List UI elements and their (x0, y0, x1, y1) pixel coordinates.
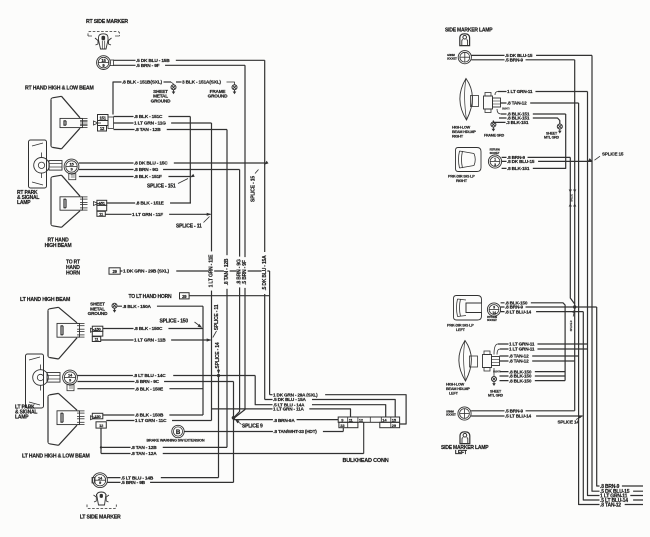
lamp: side marker right icon (460, 34, 470, 46)
lamp: prk-dir sig lp right (456, 148, 482, 172)
svg-text:.8 BRN - 9G: .8 BRN - 9G (134, 167, 159, 173)
wire BRN-9 trunk (597, 307, 643, 486)
wire BRN-9 riser (prk-dir right) (570, 157, 574, 304)
svg-text:LT HAND HIGH BEAM: LT HAND HIGH BEAM (20, 297, 70, 303)
lamp: RT hand high-low beam headlamp (53, 96, 62, 98)
sheet metal ground left (493, 368, 495, 376)
splice 15 callout (right) (588, 158, 593, 163)
wire .8 BLK - 151F (79, 176, 190, 178)
svg-text:SPLICE - 151: SPLICE - 151 (147, 184, 176, 190)
lamp: RT hand high beam headlamp (53, 175, 62, 177)
svg-text:BULKHEAD CONN: BULKHEAD CONN (343, 458, 389, 464)
wire LT GRN-11 vertical (211, 123, 213, 421)
svg-text:SOCKET: SOCKET (487, 318, 497, 322)
svg-text:TO LT HAND HORN: TO LT HAND HORN (129, 294, 173, 300)
svg-text:SOCKET: SOCKET (446, 413, 456, 417)
svg-text:.8 TAN - 12A: .8 TAN - 12A (131, 451, 157, 457)
svg-text:LEFT: LEFT (449, 392, 459, 396)
svg-text:.8 BLK - 150C: .8 BLK - 150C (134, 326, 163, 332)
wire 1 LT GRN - 11G (114, 122, 212, 124)
svg-text:1: 1 (494, 158, 496, 162)
wire TAN-12 vertical (226, 130, 228, 448)
lamp: RT side marker lamp icon (88, 32, 120, 37)
svg-text:9: 9 (493, 306, 495, 310)
wire 1 LT GRN-11 left #1 (494, 344, 498, 355)
svg-text:BEAM HDLMP: BEAM HDLMP (446, 387, 470, 391)
svg-text:HIGH BEAM: HIGH BEAM (45, 243, 72, 249)
wire LT BLU-14 trunk (583, 312, 643, 500)
connector: side marker right socket (458, 51, 471, 64)
svg-text:LEFT: LEFT (455, 450, 467, 456)
connector: LT park socket 14/9 (63, 370, 78, 385)
svg-text:3 BLK - 151A(SXL): 3 BLK - 151A(SXL) (182, 80, 221, 86)
svg-text:HORN: HORN (66, 271, 81, 277)
wire .8 BLK-151 (prk-dir right) (502, 114, 566, 168)
svg-text:.8 LT BLU-14: .8 LT BLU-14 (505, 309, 531, 314)
svg-text:1 LT GRN - 11F: 1 LT GRN - 11F (132, 212, 163, 218)
svg-text:BRAKE WARNING SW EXTENSION: BRAKE WARNING SW EXTENSION (147, 439, 205, 443)
svg-text:MTL GRD: MTL GRD (488, 394, 504, 398)
wire .8 BLK-151 #2 to sheet metal ground (499, 118, 560, 124)
wire .8 BLK-150 left #2 (500, 375, 566, 377)
lamp: high-low beam hdlmp right (460, 79, 473, 121)
svg-text:RT SIDE MARKER: RT SIDE MARKER (86, 19, 128, 25)
connector: high-low right plug (471, 96, 479, 107)
wire .5 BRN - 9C (77, 381, 233, 383)
svg-text:MTL GRD: MTL GRD (544, 136, 560, 140)
svg-text:PRK-DIR SIG LP: PRK-DIR SIG LP (448, 175, 475, 179)
svg-text:150: 150 (94, 326, 101, 331)
wire .8 TAN - 12A (101, 453, 364, 455)
wire .5 BRN-9 (bottom) (471, 410, 575, 412)
lamp: prk-dir sig lp left (454, 296, 482, 321)
wire 1 LT GRN-11 left #2 (497, 349, 500, 355)
wire BRN-9G vertical (234, 170, 239, 418)
svg-text:LAMP: LAMP (17, 200, 31, 206)
wire .8 TAN-12 left #2 (500, 360, 575, 362)
wire BRN-9C/9B vertical (233, 382, 235, 483)
wire LT GRN-11 trunk right (588, 92, 644, 496)
sheet metal ground symbol top (171, 85, 176, 90)
wire .8 BLK-151 #1 (497, 109, 501, 114)
wire 3 BLK - 151A(SXL) (176, 81, 182, 83)
svg-text:.5 BRN-9: .5 BRN-9 (505, 57, 524, 62)
lamp: LT side marker lamp icon (97, 492, 107, 505)
connector: high-low left plug (470, 356, 478, 367)
splice 15 callout (left) (263, 161, 269, 166)
svg-text:3: 3 (494, 163, 496, 167)
wire 1 LT GRN - 11F (105, 213, 210, 215)
svg-text:.8 TAN - 12B: .8 TAN - 12B (135, 127, 161, 133)
svg-text:LEFT: LEFT (456, 328, 466, 332)
svg-text:RIGHT: RIGHT (452, 135, 464, 139)
svg-text:.8 BLK - 151F: .8 BLK - 151F (134, 174, 162, 180)
svg-text:1 LT GRN-11: 1 LT GRN-11 (509, 347, 535, 352)
connector pins 150 / 12 (LT high-low) (92, 413, 103, 419)
wire BRN-9F vertical (235, 65, 245, 417)
wire break symbols on BRN lines (569, 190, 572, 193)
lamp: high-low beam hdlmp left (459, 341, 472, 382)
lamp: LT hand high beam headlamp (50, 307, 59, 309)
svg-text:SOCKET: SOCKET (447, 56, 457, 60)
svg-text:1 LT GRN - 11A: 1 LT GRN - 11A (273, 407, 305, 412)
wire .5 BRN - 9F (114, 64, 245, 66)
svg-text:.5 BRN - 9C: .5 BRN - 9C (135, 379, 160, 385)
lamp: LT park & signal lamp body (26, 354, 44, 408)
svg-text:LT SIDE MARKER: LT SIDE MARKER (80, 515, 121, 521)
svg-text:.5 BRN - 9F: .5 BRN - 9F (242, 260, 248, 285)
wire .5 BRN - 9B (107, 481, 233, 483)
wire .8 BRN - 9G (79, 169, 240, 171)
wire .3 BLK-151 to frame ground (493, 121, 530, 123)
svg-text:.8 BLK - 151C: .8 BLK - 151C (134, 114, 163, 120)
wire .8 TAN - 12B (114, 129, 228, 131)
svg-text:.5 BRN - 9F: .5 BRN - 9F (136, 63, 160, 69)
svg-text:GROUND: GROUND (88, 311, 108, 316)
wire DK BLU-15 trunk right (592, 55, 643, 491)
vertical wire labels on corridor (208, 251, 214, 290)
wire DK BLU-15 vertical (264, 60, 266, 399)
wire .8 TAN/WHT - 33 (HDT) (184, 431, 343, 433)
svg-text:.8 LT BLU - 14C: .8 LT BLU - 14C (133, 373, 166, 379)
wire .8 BLK - 151C (114, 116, 191, 118)
wire .8 BLK-150 (prk-dir left) (501, 303, 565, 381)
svg-text:SPLICE - 15: SPLICE - 15 (251, 176, 257, 202)
wire .5 DK BLU - 15A (265, 400, 396, 418)
svg-text:.8 TAN-12: .8 TAN-12 (509, 359, 529, 364)
wire .5 LT BLU - 14B (107, 477, 218, 479)
wire 1 LT GRN - 11B (101, 339, 211, 341)
wire .8 BRN-9 (prk-dir left) (501, 306, 597, 308)
svg-text:SPLICE - 14: SPLICE - 14 (215, 342, 221, 368)
svg-text:B: B (176, 429, 181, 436)
svg-text:HIGH-LOW: HIGH-LOW (452, 126, 471, 130)
svg-text:SPLICE - 11: SPLICE - 11 (176, 223, 202, 229)
wire .8 BLK - 150A (118, 305, 204, 307)
svg-text:LT HAND HIGH & LOW BEAM: LT HAND HIGH & LOW BEAM (22, 454, 90, 460)
connector: side marker left socket (458, 407, 471, 420)
wire .8 BLK - 150C (103, 328, 203, 330)
wire LT BLU-14 vertical (218, 376, 220, 478)
frame ground symbol top (232, 85, 237, 90)
svg-text:RT HAND HIGH & LOW BEAM: RT HAND HIGH & LOW BEAM (25, 86, 94, 92)
svg-text:SPLICE 15: SPLICE 15 (602, 152, 624, 157)
svg-text:.8 TAN-12: .8 TAN-12 (600, 502, 621, 508)
svg-text:14: 14 (492, 311, 496, 315)
brake warning switch extension symbol (172, 425, 184, 437)
wire .5 LT BLU-14 (bottom) (471, 415, 582, 417)
wire BLK-150 vertical (202, 306, 204, 415)
wire .8 TAN-12 (right high-low) (501, 102, 579, 104)
wire .8 BLK - 151E (107, 202, 191, 204)
svg-text:RIGHT: RIGHT (456, 179, 468, 183)
svg-text:1 LT GRN-11: 1 LT GRN-11 (507, 89, 533, 94)
wire 1 LT GRN-11 (right high-low) (495, 92, 498, 96)
wire 1 DK GRN - 29A (SXL) (270, 395, 407, 424)
wire 1 DK GRN - 29B (SXL) (120, 270, 269, 272)
svg-text:1 LT GRN - 11G: 1 LT GRN - 11G (134, 121, 166, 127)
wire DK GRN-29 vertical (269, 271, 271, 395)
svg-text:150: 150 (94, 414, 101, 419)
svg-text:1 LT GRN - 11B: 1 LT GRN - 11B (134, 338, 166, 344)
svg-text:1 LT GRN - 11E: 1 LT GRN - 11E (209, 254, 215, 288)
wire .8 BLK - 150E (77, 388, 203, 390)
lamp: LT hand high & low beam headlamp (50, 393, 59, 395)
svg-text:.5 LT BLU-14: .5 LT BLU-14 (505, 414, 531, 419)
wire .5 DK BLU-15 (right) (471, 54, 592, 56)
svg-text:.8 TAN - 12B: .8 TAN - 12B (224, 258, 230, 285)
wire .8 BLK-150 left #1 (500, 371, 566, 373)
splice 151 callout (178, 179, 188, 184)
connector pins 151 / 11 (RT high beam) (97, 200, 107, 205)
frame ground right (491, 122, 496, 127)
svg-text:.8 TAN-12: .8 TAN-12 (507, 101, 527, 106)
svg-text:.8 DK BLU-15: .8 DK BLU-15 (507, 159, 535, 164)
svg-text:.3 BLK-151: .3 BLK-151 (506, 120, 529, 125)
wire .5 DK BLU - 15B (114, 59, 265, 61)
wire .8 DK BLU-15 (prk-dir right) (502, 160, 592, 162)
splice 9 junction right (573, 305, 576, 308)
svg-text:.8 BLK-151: .8 BLK-151 (507, 166, 530, 171)
lamp: RT park & signal lamp body (29, 140, 47, 188)
svg-text:LAMP: LAMP (15, 415, 29, 421)
svg-text:SPLICE - 150: SPLICE - 150 (160, 319, 189, 325)
svg-text:.8 BLK - 151E: .8 BLK - 151E (136, 201, 165, 207)
bottom right labels (600, 483, 622, 488)
wire .8 TAN - 12B (lower) (101, 446, 227, 448)
svg-text:.8 BLK - 150B: .8 BLK - 150B (135, 413, 164, 419)
wire to LT hand horn (189, 295, 270, 297)
svg-text:151: 151 (100, 115, 107, 120)
wire .8 BRN-9 (prk-dir right) (502, 156, 571, 158)
svg-text:GROUND: GROUND (151, 98, 171, 103)
wire .8 DK BLU - 15C (79, 162, 265, 164)
svg-text:HIGH-LOW: HIGH-LOW (446, 383, 465, 387)
wire BRN-9 down to left side marker (574, 307, 576, 411)
svg-text:PRK-DIR SIG LP: PRK-DIR SIG LP (447, 324, 474, 328)
svg-text:BEAM HDLMP: BEAM HDLMP (452, 130, 476, 134)
wire .5 LT BLU - 14A label (273, 402, 312, 407)
wire TAN-12 trunk right (578, 103, 580, 501)
svg-text:.8 BLK - 150A: .8 BLK - 150A (123, 304, 152, 310)
svg-text:FRAME GRD: FRAME GRD (484, 134, 505, 138)
wire 1 LT GRN - 11C (106, 420, 211, 422)
svg-text:SPLICE 9: SPLICE 9 (242, 424, 263, 430)
wire .8 LT BLU-14 (prk-dir left) (501, 311, 584, 313)
svg-text:1 DK GRN - 29B (SXL): 1 DK GRN - 29B (SXL) (123, 269, 169, 275)
wire .8 TAN-12 left #1 (500, 355, 579, 357)
sheet metal ground symbol mid (112, 303, 117, 308)
svg-text:GROUND: GROUND (208, 94, 228, 99)
svg-text:SOCKET: SOCKET (490, 151, 500, 155)
wire BLK-151 vertical (189, 117, 191, 204)
TAN drop from pin 12 (100, 428, 102, 453)
svg-text:8M8473: 8M8473 (502, 108, 510, 111)
connector: RT park socket 15/9 (64, 159, 79, 174)
splice 11 callout (132, 212, 170, 217)
svg-text:.5 DK BLU - 15A: .5 DK BLU - 15A (273, 397, 306, 402)
wire .8 BLK - 150B (103, 414, 203, 416)
svg-text:.8 BLK-150: .8 BLK-150 (509, 378, 532, 383)
svg-text:.8 BLK - 151B(SXL): .8 BLK - 151B(SXL) (122, 80, 162, 86)
svg-text:.5 DK BLU - 15A: .5 DK BLU - 15A (262, 255, 268, 291)
connector: RT side marker socket 15/9 (97, 56, 111, 70)
svg-text:SPLICE 14: SPLICE 14 (558, 420, 580, 425)
wire .8 BLK - 151B(SXL) ground jumper (113, 82, 122, 115)
svg-text:151: 151 (99, 200, 106, 205)
svg-text:SPLICE - 11: SPLICE - 11 (214, 304, 220, 330)
wire BRN-9 riser (side marker) (574, 60, 576, 307)
connector: LT side marker socket 14/9 (93, 473, 108, 488)
svg-text:.8 BLK - 150E: .8 BLK - 150E (135, 386, 164, 392)
connector pins 150 / 11 (LT high beam) (92, 326, 103, 331)
svg-text:.8 TAN - 12B: .8 TAN - 12B (131, 445, 157, 451)
sheet metal ground right top (557, 124, 562, 129)
wire .5 BRN - 9A (234, 419, 339, 421)
svg-text:.8 TAN/WHT-33 (HDT): .8 TAN/WHT-33 (HDT) (273, 429, 317, 434)
bulkhead connector (338, 417, 399, 422)
wire .8 LT BLU - 14C (77, 375, 255, 377)
wire LT BLU-14 jog to bulkhead (255, 376, 386, 418)
wire .8 BLK-150 left #3 (500, 380, 566, 382)
splice 9 junction (232, 416, 236, 420)
svg-text:.5 BRN - 9B: .5 BRN - 9B (121, 480, 146, 486)
wire .5 BRN-9 (right) (471, 59, 574, 61)
svg-text:1 LT GRN - 11C: 1 LT GRN - 11C (135, 418, 167, 424)
svg-text:SPLICE 9: SPLICE 9 (569, 320, 573, 331)
svg-text:SIDE MARKER LAMP: SIDE MARKER LAMP (445, 28, 493, 34)
svg-text:.8 BRN-9A: .8 BRN-9A (273, 418, 295, 423)
wire 1 LT GRN - 11A (212, 409, 351, 417)
lamp: side marker left icon (460, 432, 470, 444)
connector: prk-dir left socket (487, 303, 500, 316)
splice 14 callout right (576, 417, 581, 420)
connector pins 151 / 12 (RT high-low) (98, 115, 109, 121)
svg-text:SPLICE: SPLICE (571, 194, 574, 202)
svg-text:.8 DK BLU - 15C: .8 DK BLU - 15C (134, 161, 168, 167)
